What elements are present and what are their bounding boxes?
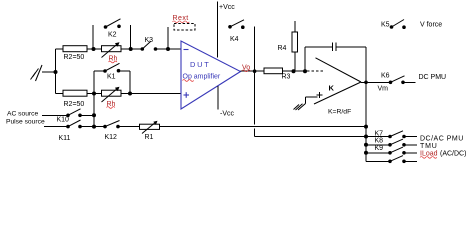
svg-text:ILoad: ILoad [420, 151, 438, 158]
svg-text:DC/AC PMU: DC/AC PMU [420, 136, 464, 143]
wire AC source feed [42, 114, 68, 116]
switch K11 [66, 125, 70, 129]
amplifier K (nulling amp) [314, 58, 361, 104]
wire DUT output [241, 70, 265, 72]
wire feedback right vertical [365, 47, 367, 83]
switch K3 [141, 47, 145, 51]
ground [31, 65, 56, 81]
node Vm [364, 81, 368, 85]
svg-text:Vm: Vm [378, 86, 389, 93]
node rail-R1 [364, 125, 368, 129]
switch K12 [103, 125, 107, 129]
wire Rext vertical [167, 27, 169, 49]
resistor Rext (dashed box) [174, 24, 195, 31]
wire row2 seg2 [87, 93, 102, 95]
switch K5 [390, 25, 394, 29]
svg-text:-Vcc: -Vcc [220, 111, 235, 118]
svg-text:Pulse source: Pulse source [6, 119, 45, 126]
wire row2 left elbow [56, 93, 64, 95]
node bus-K10 [92, 113, 96, 117]
potentiometer R1 [140, 122, 160, 134]
resistor R4 [294, 21, 296, 32]
svg-text:(AC/DC): (AC/DC) [440, 151, 466, 158]
switch K8 [366, 144, 390, 146]
wire Vo branch horizontal [255, 136, 366, 138]
svg-text:R1: R1 [145, 134, 154, 141]
K-amp plus sign [317, 92, 323, 98]
wire K11 to K12 [80, 126, 105, 128]
svg-text:K2: K2 [108, 32, 117, 39]
svg-text:K4: K4 [230, 36, 239, 43]
wire row1 [56, 48, 64, 50]
node Vo [253, 69, 257, 73]
svg-text:R2=50: R2=50 [64, 101, 85, 108]
resistor R2 (row1) [63, 46, 87, 52]
wire row1 seg4 to DUT [156, 48, 181, 50]
wire Pulse source feed [44, 126, 68, 128]
node Rext tap [166, 47, 170, 51]
switch K6 [389, 81, 393, 85]
svg-text:K=R/dF: K=R/dF [328, 109, 351, 116]
svg-text:Op amplifier: Op amplifier [183, 74, 221, 81]
node row2-b [128, 92, 132, 96]
wire row1 seg3 [121, 48, 143, 50]
node feedback tap [303, 69, 307, 73]
switch K10b (bottom partial row) [366, 160, 390, 162]
svg-text:K9: K9 [375, 145, 384, 152]
wire main vertical bus [93, 94, 95, 127]
resistor R3 [264, 68, 283, 74]
switch K9 [366, 152, 390, 154]
wire feedback top right [336, 46, 366, 48]
power +Vcc rail [216, 2, 218, 58]
wire bottom long to rail [160, 126, 367, 128]
potentiometer Rh (row2) [102, 88, 122, 103]
switch K7 [364, 135, 368, 139]
op-amp U1 DUT [181, 41, 241, 109]
wire K12 to R1 [118, 126, 140, 128]
svg-text:K1: K1 [107, 74, 116, 81]
capacitor C1 feedback [332, 43, 336, 51]
svg-text:K11: K11 [59, 135, 71, 142]
switch K2 (bypasses Rh row1) [93, 25, 131, 49]
wire output rail vertical [365, 82, 367, 161]
svg-text:K: K [329, 84, 335, 93]
node row1-a [92, 47, 96, 51]
wire K-amp plus input [306, 97, 318, 104]
wire left rail [55, 49, 57, 94]
svg-text:V force: V force [420, 22, 442, 29]
ground K-amp [294, 104, 306, 111]
switch K4 [228, 25, 232, 29]
wire row1 seg2 [87, 48, 102, 50]
potentiometer Rh (row1) [102, 43, 122, 58]
wire K-amp output [361, 81, 391, 83]
svg-text:DUT: DUT [190, 60, 211, 69]
wire dashed to K-amp minus input [307, 70, 323, 72]
node ground-tap [54, 70, 58, 74]
wire Vo down branch [254, 71, 256, 124]
svg-text:Rext: Rext [173, 15, 189, 22]
resistor R2 (row2) [63, 90, 87, 96]
svg-text:K6: K6 [381, 73, 390, 80]
wire row2 to DUT plus input [121, 93, 181, 95]
node R4 tap [292, 69, 296, 73]
power -Vcc pin [217, 86, 219, 110]
node row1-b [129, 47, 133, 51]
svg-text:K3: K3 [145, 37, 154, 44]
switch K1 (bypasses Rh row2) [94, 71, 130, 94]
wire feedback left vertical [304, 47, 306, 71]
svg-text:K12: K12 [105, 134, 118, 141]
svg-text:R2=50: R2=50 [64, 54, 85, 61]
wire feedback top left [305, 46, 332, 48]
node row2-a [92, 92, 96, 96]
svg-text:K8: K8 [375, 137, 384, 144]
svg-text:TMU: TMU [420, 143, 438, 150]
switch K10 [66, 114, 70, 118]
wire K4 down to output [254, 27, 256, 72]
svg-text:K10: K10 [57, 117, 70, 124]
svg-text:R4: R4 [278, 45, 287, 52]
svg-text:DC PMU: DC PMU [419, 74, 447, 81]
svg-text:+Vcc: +Vcc [219, 4, 235, 11]
svg-text:K5: K5 [381, 22, 390, 29]
svg-text:R3: R3 [282, 74, 291, 81]
wire R3 to K-amp [283, 70, 308, 72]
svg-text:AC source: AC source [7, 111, 39, 118]
node bus-K11 [92, 125, 96, 129]
